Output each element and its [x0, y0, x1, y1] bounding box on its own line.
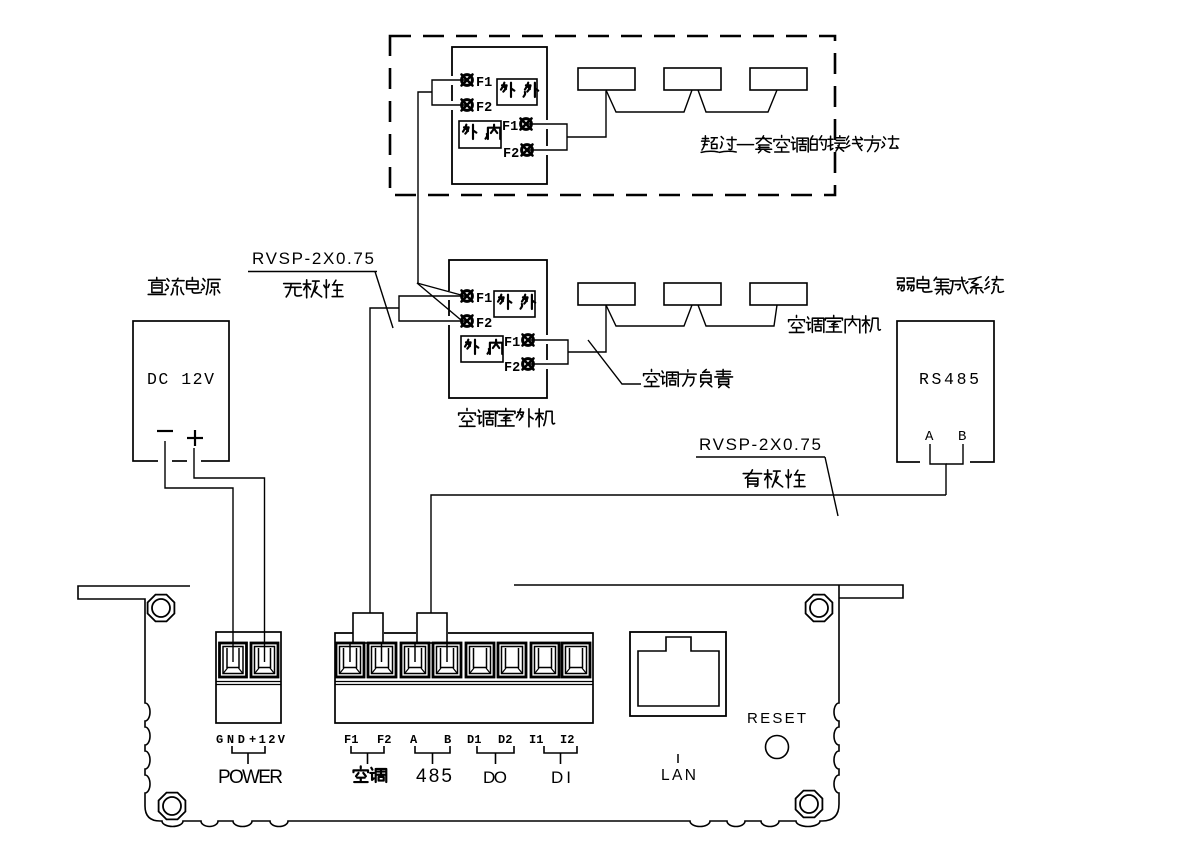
- svg-text:RVSP-2X0.75: RVSP-2X0.75: [699, 435, 821, 454]
- svg-text:D2: D2: [498, 733, 512, 747]
- svg-text:F2: F2: [503, 147, 519, 162]
- svg-text:+12V: +12V: [249, 733, 286, 747]
- svg-text:DO: DO: [483, 768, 507, 787]
- svg-text:I2: I2: [560, 733, 574, 747]
- svg-text:F1: F1: [344, 733, 358, 747]
- svg-text:F2: F2: [377, 733, 391, 747]
- svg-text:F1: F1: [504, 336, 520, 351]
- svg-text:F1: F1: [502, 120, 518, 135]
- svg-text:F1: F1: [476, 76, 492, 91]
- svg-text:D1: D1: [467, 733, 481, 747]
- svg-text:GND: GND: [216, 733, 245, 747]
- svg-text:485: 485: [416, 766, 452, 787]
- svg-text:RS485: RS485: [919, 370, 979, 389]
- svg-text:B: B: [958, 429, 966, 445]
- svg-text:F2: F2: [476, 101, 492, 116]
- svg-text:A: A: [410, 733, 418, 747]
- svg-text:RESET: RESET: [747, 710, 806, 727]
- svg-text:F1: F1: [476, 292, 492, 307]
- svg-text:POWER: POWER: [218, 767, 283, 788]
- svg-text:I1: I1: [529, 733, 543, 747]
- svg-text:DI: DI: [551, 768, 571, 787]
- svg-text:DC 12V: DC 12V: [147, 370, 214, 389]
- svg-text:A: A: [925, 429, 934, 445]
- svg-text:F2: F2: [504, 361, 520, 376]
- svg-text:B: B: [444, 733, 451, 747]
- svg-text:F2: F2: [476, 317, 492, 332]
- svg-text:LAN: LAN: [661, 767, 696, 784]
- svg-text:RVSP-2X0.75: RVSP-2X0.75: [252, 249, 374, 268]
